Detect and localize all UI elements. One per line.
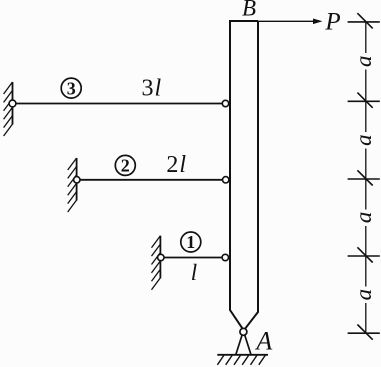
- dimension tick 4: [348, 247, 380, 262]
- svg-text:2l: 2l: [166, 152, 186, 178]
- label circled 3: [61, 78, 81, 98]
- dimension tick 5: [348, 325, 380, 340]
- ground line at A: [217, 354, 268, 356]
- pin circle rod3 right: [222, 100, 228, 106]
- label circled 2: [115, 155, 135, 175]
- svg-text:3: 3: [67, 78, 76, 98]
- pin circle rod2 left: [74, 177, 80, 183]
- pin support triangle at A: [236, 335, 242, 355]
- svg-text:2: 2: [121, 156, 130, 176]
- rod 2 (member 2, length 2l): [77, 179, 229, 181]
- svg-text:1: 1: [186, 232, 195, 252]
- svg-text:a: a: [351, 289, 376, 301]
- dimension tick 3: [348, 170, 380, 185]
- pin circle rod1 right: [222, 254, 228, 260]
- svg-text:a: a: [351, 134, 376, 146]
- svg-text:l: l: [191, 260, 197, 285]
- svg-text:3l: 3l: [142, 76, 162, 102]
- vertical bar AB: [230, 21, 243, 329]
- dimension tick 2: [348, 93, 380, 108]
- wall support of rod 2: [68, 158, 77, 212]
- svg-text:a: a: [351, 56, 376, 68]
- force P arrow: [258, 20, 314, 22]
- svg-text:A: A: [254, 326, 272, 355]
- wall support of rod 1: [152, 236, 161, 290]
- pin circle rod2 right: [223, 177, 229, 183]
- wall support of rod 3: [4, 82, 13, 136]
- svg-text:P: P: [324, 9, 340, 36]
- dimension line (right): [365, 22, 367, 333]
- pin circle at A: [240, 328, 247, 335]
- ground hatching at A: [217, 355, 265, 364]
- svg-text:B: B: [242, 0, 256, 21]
- rod 1 (member 1, length l): [160, 257, 229, 259]
- dimension tick 1: [348, 13, 380, 28]
- svg-text:a: a: [351, 212, 376, 224]
- pin circle rod1 left: [158, 254, 164, 260]
- label circled 1: [181, 232, 201, 252]
- rod 3 (member 3, length 3l): [13, 103, 230, 105]
- pin circle rod3 left: [9, 100, 16, 107]
